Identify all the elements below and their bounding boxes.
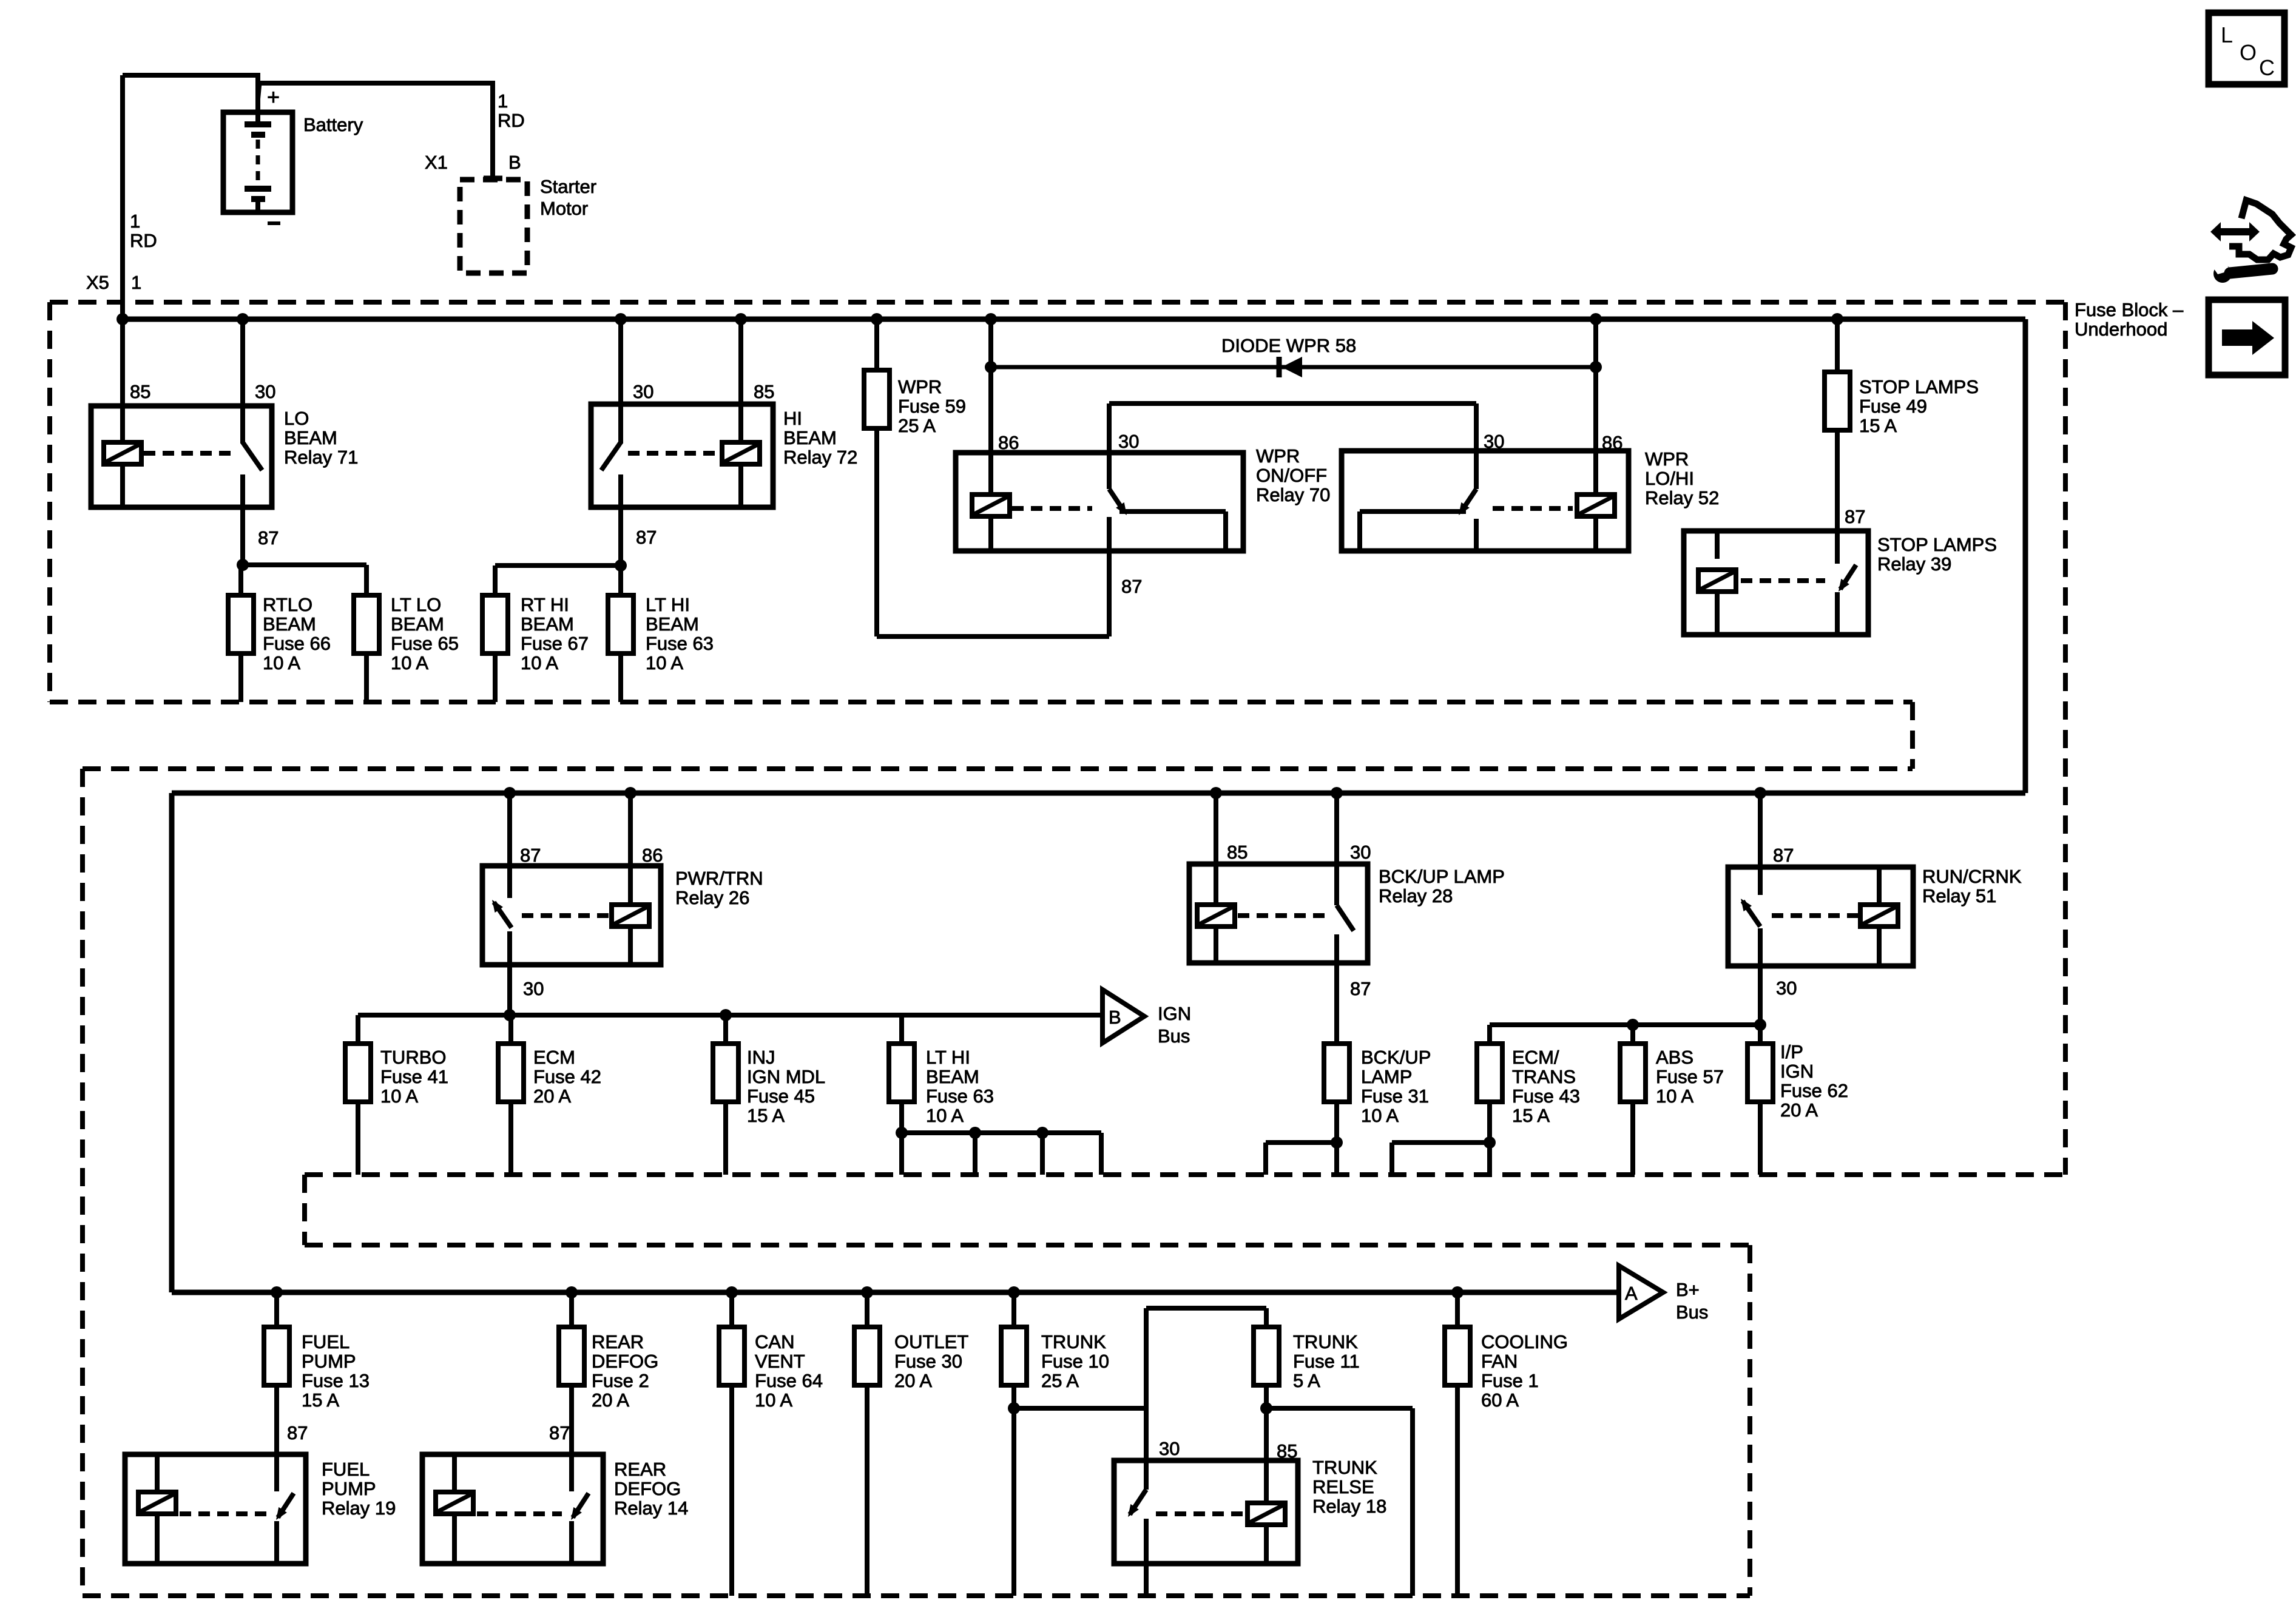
svg-text:30: 30 (1776, 977, 1797, 999)
junction bus1 x2630 (1590, 313, 1602, 325)
svg-text:Battery: Battery (303, 114, 363, 135)
wire fuse63b branch (902, 1130, 1101, 1135)
svg-text:Fuse Block –Underhood: Fuse Block –Underhood (2075, 299, 2184, 340)
junction fuse43 splice (1484, 1136, 1496, 1149)
wire relay51 pin87 riser (1758, 793, 1763, 895)
svg-text:X5: X5 (86, 272, 109, 293)
fuse F59 WPR Fuse 59 25A (864, 370, 890, 428)
relay R39 STOP LAMPS Relay 39 (1684, 531, 1868, 635)
wire fuse43 branch drop (1389, 1143, 1394, 1175)
switch blade relay52 (1460, 489, 1476, 513)
relay R72 HI BEAM Relay 72 (591, 404, 773, 507)
wire 1 RD left drop (120, 75, 125, 319)
dashed actuator link relay39 (1741, 578, 1825, 583)
svg-text:30: 30 (1484, 431, 1504, 452)
blade arrow relay14 (571, 1507, 582, 1520)
wire to starter motor (490, 83, 495, 178)
wire relay71 coil to case (120, 464, 125, 507)
fuse block boundary right lower (1747, 1245, 1752, 1596)
wire fuse63 out (618, 653, 623, 702)
wire relay39 coil to case (1715, 592, 1720, 635)
wire to fuse 67 (495, 563, 621, 568)
blade arrow relay39 (1838, 579, 1849, 592)
junction fuse67/63 feed (615, 559, 627, 572)
svg-text:30: 30 (1159, 1438, 1180, 1459)
wire fuse1 feed (1455, 1292, 1460, 1327)
fuse F63 LT HI BEAM Fuse 63 10A (608, 595, 633, 653)
wire fuse31 branch drop (1263, 1143, 1268, 1175)
junction diode left (985, 361, 997, 373)
fuse block boundary row1 bottom (50, 700, 1913, 704)
junction relay51 pin30 (1754, 1019, 1766, 1031)
relay R26 PWR/TRN Relay 26 (482, 866, 661, 965)
svg-text:85: 85 (1227, 842, 1248, 863)
svg-text:+: + (267, 84, 280, 109)
wire relay26 coil to case (628, 927, 633, 965)
wire relay14 coil to case (452, 1514, 457, 1564)
icon LOC box (2209, 13, 2284, 84)
coil relay14 (436, 1492, 473, 1514)
wire branch drop 2 (1040, 1133, 1045, 1175)
svg-text:30: 30 (633, 381, 653, 402)
junction bus1 x202 (116, 313, 129, 325)
switch blade relay70 (1109, 489, 1125, 513)
wire fuse43 branch (1392, 1140, 1490, 1145)
wire relay28 coil to case (1214, 927, 1218, 963)
wire fuse11 loop left (1144, 1308, 1149, 1408)
wire fuse66 feed (238, 565, 243, 595)
starter terminal bar (484, 176, 502, 181)
junction fuse11 splice (1260, 1402, 1272, 1414)
fuse F43 ECM/TRANS Fuse 43 15A (1477, 1044, 1502, 1102)
wire fuse65 feed (364, 565, 369, 595)
wire relay52 coil riser (1593, 319, 1598, 498)
svg-text:30: 30 (1118, 431, 1139, 452)
wire fuse59 feed (874, 319, 879, 370)
junction bus1 x1633 (985, 313, 997, 325)
fuse block boundary right upper (2063, 302, 2068, 1175)
coil relay52 (1577, 495, 1615, 516)
fuse block boundary step right (1910, 702, 1915, 769)
junction bus2 x2203 (1331, 787, 1343, 799)
junction bus1 x400 (237, 313, 249, 325)
dashed actuator link relay19 (180, 1511, 267, 1516)
wire fuse49 feed (1835, 319, 1840, 372)
junction fuse31 splice (1331, 1136, 1343, 1149)
fuse F13 FUEL PUMP Fuse 13 15A (264, 1327, 289, 1385)
svg-text:1: 1 (498, 90, 508, 112)
wire relay52 coil to case (1593, 516, 1598, 551)
coil relay18 (1248, 1503, 1285, 1525)
wire fuse11 branch drop (1410, 1408, 1415, 1596)
relay R71 LO BEAM Relay 71 (91, 406, 272, 507)
junction bus1 x3028 (1831, 313, 1843, 325)
switch blade relay39 (1840, 565, 1856, 589)
wire relay52 contact drop (1357, 511, 1362, 551)
wire fuse1 out (1455, 1385, 1460, 1596)
wire relay52 pin30 riser (1474, 403, 1479, 489)
svg-text:1: 1 (130, 211, 140, 232)
wire section2 bus (172, 791, 2025, 796)
svg-text:DIODE WPR 58: DIODE WPR 58 (1221, 335, 1356, 356)
fuse F57 ABS Fuse 57 10A (1620, 1044, 1646, 1102)
icon car with double arrow and wrench (2210, 200, 2291, 283)
node B IGN Bus marker (1102, 990, 1144, 1043)
junction fuse63b splice (896, 1127, 908, 1139)
wire fuse63b out (899, 1102, 904, 1175)
wire fuse42 feed (508, 1015, 513, 1044)
fuse block boundary bottom (83, 1593, 1750, 1598)
blade arrow relay19 (276, 1507, 287, 1520)
junction fuse57 feed (1627, 1019, 1639, 1031)
fuse F49 STOP LAMPS Fuse 49 15A (1825, 372, 1850, 430)
wire right feeder down to section 2 (2023, 319, 2028, 793)
svg-text:30: 30 (255, 381, 275, 402)
coil relay19 (138, 1492, 176, 1514)
fuse block boundary row2 top (83, 766, 1913, 771)
label minus (268, 221, 280, 225)
wire relay52 contact (1360, 509, 1466, 514)
wire relay72 87 down (618, 507, 623, 565)
wire relay19 coil to case (155, 1514, 160, 1564)
wire IGN feed line (358, 1013, 1102, 1018)
svg-text:X1: X1 (425, 152, 448, 173)
wire fuse11 branch right (1266, 1406, 1413, 1411)
switch blade relay51 (1743, 901, 1760, 927)
svg-text:87: 87 (520, 845, 541, 866)
dashed actuator link relay52 (1493, 506, 1573, 511)
wire fuse64 out (729, 1385, 734, 1596)
wire battery + to starter (260, 81, 495, 86)
svg-text:86: 86 (1602, 432, 1622, 453)
junction bus2 x2004 (1210, 787, 1222, 799)
wire battery + stem (255, 73, 260, 124)
coil relay72 (722, 442, 760, 464)
wire fuse43/57 feed line (1490, 1022, 1760, 1027)
wire relay70 contact (1119, 509, 1226, 514)
svg-text:30: 30 (523, 978, 544, 999)
wire fuse59 out down (874, 428, 879, 636)
wire fuse67 out (493, 653, 498, 702)
fuse F64 CAN VENT Fuse 64 10A (719, 1327, 745, 1385)
wire joint (258, 83, 260, 102)
wire fuse43 feed (1487, 1025, 1492, 1044)
fuse block boundary row3 top (305, 1243, 1750, 1247)
svg-text:87: 87 (636, 527, 657, 548)
wire branch drop 3 (1099, 1133, 1104, 1175)
fuse F66 RTLO BEAM Fuse 66 10A (228, 595, 254, 653)
wire fuse31 out (1334, 1102, 1339, 1175)
junction bus3 x942 (566, 1286, 578, 1298)
wire relay71 pin30 riser (240, 319, 245, 444)
junction fuse66/65 feed (237, 559, 249, 571)
fuse F1 COOLING FAN Fuse 1 60A (1445, 1327, 1470, 1385)
dashed actuator link relay51 (1772, 913, 1858, 918)
fuse F45 INJ IGN MDL Fuse 45 15A (713, 1044, 738, 1102)
fuse F10 TRUNK Fuse 10 25A (1001, 1327, 1027, 1385)
relay R51 RUN/CRNK Relay 51 (1728, 867, 1913, 966)
junction bus1 x1445 (871, 313, 883, 325)
svg-text:85: 85 (130, 381, 150, 402)
wire relay51 coil to case (1877, 927, 1882, 966)
junction IGN relay26 (504, 1009, 516, 1021)
coil relay39 (1698, 570, 1736, 592)
wire main B+ bus (fuse block feed) (123, 317, 2025, 322)
wire relay72 coil to case (738, 464, 743, 507)
wire fuse13 feed (274, 1292, 279, 1327)
svg-text:A: A (1625, 1283, 1638, 1304)
fuse F62 I/P IGN Fuse 62 20A (1747, 1044, 1773, 1102)
wire relay28 pin30 riser (1334, 793, 1339, 905)
fuse F67 RT HI BEAM Fuse 67 10A (482, 595, 508, 653)
svg-text:87: 87 (287, 1422, 308, 1443)
svg-text:L: L (2221, 22, 2233, 47)
wire fuse10 out (1011, 1385, 1016, 1596)
svg-text:87: 87 (1350, 978, 1371, 999)
wire relay26 coil riser (628, 793, 633, 905)
fuse block boundary row2 bottom (305, 1172, 2065, 1177)
junction bus2 x1039 (624, 787, 636, 799)
wire fuse30 feed (865, 1292, 869, 1327)
wire fuse11 feed (1264, 1308, 1269, 1327)
fuse block boundary top (50, 300, 2065, 305)
dashed actuator link relay70 (1012, 506, 1092, 511)
wire left feeder to section 3 (169, 793, 175, 1292)
junction branch 1 (969, 1127, 981, 1139)
switch blade relay19 (278, 1493, 294, 1517)
junction bus2 x2901 (1754, 787, 1766, 799)
relay R19 FUEL PUMP Relay 19 (125, 1454, 306, 1564)
svg-text:C: C (2259, 55, 2275, 80)
switch blade relay18 (1130, 1490, 1146, 1514)
junction IGN fuse45 (720, 1009, 732, 1021)
relay R52 WPR LO/HI Relay 52 (1342, 451, 1629, 551)
wire relay18 pin30 riser (1144, 1408, 1149, 1490)
wire relay39 coil riser internal (1715, 531, 1720, 559)
wire relay71 pin87 internal (240, 474, 245, 507)
wire fuse2 feed (569, 1292, 574, 1327)
fuse F42 ECM Fuse 42 20A (498, 1044, 524, 1102)
wire fuse41 feed (356, 1015, 360, 1044)
wire relay72 pin85 riser (738, 319, 743, 453)
wire fuse10 to relay18 (1014, 1406, 1146, 1411)
wire battery + to fuse block (top) (123, 73, 258, 78)
wire relay18 switch drop (1144, 1519, 1149, 1596)
wire relay52 pin87 internal (1474, 519, 1479, 551)
wire relay28 pin87 down (1334, 934, 1339, 1044)
junction bus3 x2402 (1451, 1286, 1464, 1298)
blade arrow relay18 (1128, 1504, 1139, 1517)
switch blade relay26 (494, 902, 512, 928)
fuse F2 REAR DEFOG Fuse 2 20A (559, 1327, 584, 1385)
wire relay14 coil riser internal (452, 1454, 457, 1492)
junction bus1 x1221 (735, 313, 747, 325)
svg-text:30: 30 (1350, 842, 1371, 863)
wire relay14 switch drop (569, 1521, 574, 1564)
wire fuse11 loop top (1146, 1306, 1266, 1311)
junction bus3 x1429 (861, 1286, 873, 1298)
switch blade relay71 (243, 442, 262, 470)
wire fuse31 branch (1266, 1140, 1337, 1145)
svg-text:87: 87 (1845, 506, 1865, 527)
wire to fuse 65 (243, 562, 366, 567)
svg-text:StarterMotor: StarterMotor (540, 176, 596, 219)
wire fuse66 out (238, 653, 243, 702)
wire relay72 pin87 internal (618, 474, 623, 507)
wire relay70 coil riser (988, 319, 993, 498)
wire relay70 pin87 internal (1107, 519, 1112, 551)
dashed actuator link relay72 (628, 451, 720, 456)
junction fuse10 splice (1008, 1402, 1020, 1414)
wire relay70 pin30 riser (1107, 403, 1112, 489)
wire relay19 coil riser internal (155, 1454, 160, 1492)
coil relay28 (1197, 905, 1235, 927)
fuse block boundary left lower (80, 769, 85, 1596)
svg-text:O: O (2240, 40, 2257, 65)
blade arrow relay51 (1741, 899, 1752, 911)
wire relay70 coil to case (988, 516, 993, 551)
wire fuse67 feed (493, 565, 498, 595)
svg-text:85: 85 (754, 381, 774, 402)
junction bus3 x1671 (1008, 1286, 1020, 1298)
wire fuse49 out to relay39 pin87 (1835, 430, 1840, 564)
coil relay26 (612, 905, 649, 927)
wire relay18 coil to case (1264, 1525, 1269, 1564)
relay R70 WPR ON/OFF Relay 70 (956, 453, 1243, 551)
wire to relay70 pin87 (1107, 517, 1112, 636)
fuse F65 LT LO BEAM Fuse 65 10A (354, 595, 379, 653)
fuse F63 LT HI BEAM Fuse 63 10A (IGN) (889, 1044, 914, 1102)
wire section3 B+ bus (172, 1290, 1619, 1295)
wire fuse13 out to relay19 (274, 1385, 279, 1454)
fuse block boundary left upper (47, 302, 52, 702)
coil relay70 (972, 495, 1010, 516)
svg-text:87: 87 (549, 1422, 570, 1443)
svg-text:86: 86 (998, 432, 1019, 453)
dashed actuator link relay14 (477, 1511, 562, 1516)
battery (223, 112, 292, 212)
junction bus3 x456 (271, 1286, 283, 1298)
blade arrow relay70 (1116, 502, 1127, 515)
wire relay72 pin30 riser (618, 319, 623, 444)
fuse F30 OUTLET Fuse 30 20A (854, 1327, 880, 1385)
switch blade relay72 (601, 442, 621, 470)
svg-text:86: 86 (642, 845, 663, 866)
wire fuse42 out (508, 1102, 513, 1175)
junction bus1 x1023 (615, 313, 627, 325)
coil relay71 (104, 442, 141, 464)
svg-text:RD: RD (130, 230, 157, 251)
dashed actuator link relay71 (144, 451, 235, 456)
relay R28 BCK/UP LAMP Relay 28 (1189, 864, 1368, 963)
fuse F11 TRUNK Fuse 11 5A (1254, 1327, 1279, 1385)
fuse block boundary step left (302, 1175, 307, 1245)
svg-text:85: 85 (1277, 1440, 1297, 1462)
relay R18 TRUNK RELSE Relay 18 (1114, 1460, 1298, 1564)
svg-text:87: 87 (1773, 845, 1794, 866)
blade arrow relay52 (1459, 502, 1470, 515)
wire fuse65 out (364, 653, 369, 702)
wire fuse41 out (356, 1102, 360, 1175)
fuse F41 TURBO Fuse 41 10A (345, 1044, 371, 1102)
switch blade relay14 (573, 1493, 589, 1517)
wire fuse64 feed (729, 1292, 734, 1327)
wire relay19 pin87 internal (274, 1454, 279, 1491)
wire fuse30 out (865, 1385, 869, 1596)
wire relay26 pin30 down (507, 931, 512, 1015)
wire fuse11 out to relay18 coil (1264, 1385, 1269, 1503)
junction bus2 x840 (504, 787, 516, 799)
svg-text:1: 1 (131, 272, 141, 293)
blade arrow relay26 (492, 900, 503, 913)
svg-text:87: 87 (1121, 576, 1142, 597)
wire relay70 contact drop (1223, 511, 1228, 551)
wire relay51 pin30 down (1758, 928, 1763, 1044)
wire relay39 switch drop (1835, 592, 1840, 635)
wire relay14 pin87 internal (569, 1454, 574, 1491)
node A B+ Bus marker (1619, 1266, 1663, 1319)
wire fuse62 out (1758, 1102, 1763, 1175)
svg-text:RD: RD (498, 110, 525, 131)
icon next-page arrow box (2209, 300, 2285, 375)
coil relay51 (1860, 905, 1898, 927)
dashed actuator link relay26 (522, 913, 609, 918)
wire relay19 switch drop (274, 1521, 279, 1564)
wire relay28 coil riser (1214, 793, 1218, 905)
dashed actuator link relay18 (1156, 1511, 1245, 1516)
wire fuse43 out (1487, 1102, 1492, 1175)
wire fuse57 feed stub (1630, 1025, 1635, 1044)
wire fuse45 out (723, 1102, 728, 1175)
junction branch 2 (1036, 1127, 1048, 1139)
wire fuse45 feed (723, 1015, 728, 1044)
wire relay26 pin87 riser (507, 793, 512, 898)
starter motor (dashed box) (460, 180, 527, 273)
switch blade relay28 (1337, 905, 1354, 931)
wire relay71 87 down (240, 507, 245, 565)
diode D58 DIODE WPR 58 (991, 357, 1596, 377)
wire fuse10 feed (1011, 1292, 1016, 1327)
fuse F31 BCK/UP LAMP Fuse 31 10A (1324, 1044, 1349, 1102)
svg-text:87: 87 (258, 527, 279, 549)
wire fuse57 out (1630, 1102, 1635, 1175)
junction diode right (1590, 361, 1602, 373)
svg-text:B: B (1109, 1007, 1121, 1028)
dashed actuator link relay28 (1238, 913, 1326, 918)
wire fuse63b feed (899, 1015, 904, 1044)
svg-text:B: B (508, 152, 521, 173)
wire relay70/52 pin30 link (1109, 401, 1476, 406)
wire fuse59 out right (877, 634, 1109, 639)
wire relay51 coil riser internal (1877, 867, 1882, 905)
wire branch drop 1 (973, 1133, 977, 1175)
junction bus3 x1206 (726, 1286, 738, 1298)
wire fuse63 feed (618, 565, 623, 595)
wire relay71 pin85 riser (120, 319, 125, 453)
wire fuse2 out to relay14 (569, 1385, 574, 1454)
relay R14 REAR DEFOG Relay 14 (422, 1454, 603, 1564)
